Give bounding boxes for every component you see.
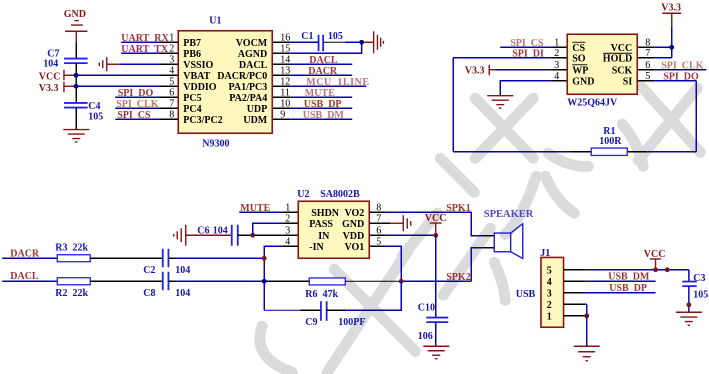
svg-text:SI: SI [623, 76, 633, 87]
svg-text:UDP: UDP [247, 104, 268, 115]
svg-text:12: 12 [280, 76, 290, 87]
flash U? left pin stubs [551, 47, 567, 81]
svg-text:SPEAKER: SPEAKER [484, 209, 534, 220]
junction V3.3 node [74, 84, 79, 89]
op-amp U1 body [178, 15, 272, 149]
svg-text:PA2/PA4: PA2/PA4 [229, 93, 267, 104]
power V3.3 [39, 82, 75, 94]
svg-text:6: 6 [376, 225, 381, 236]
svg-text:C8: C8 [143, 288, 155, 299]
resistor R1 [569, 126, 647, 156]
svg-text:SHDN: SHDN [311, 208, 340, 219]
wire [290, 74, 352, 76]
pin numbers 8-5 [376, 202, 381, 247]
svg-text:SPK2: SPK2 [446, 272, 470, 283]
svg-text:106: 106 [418, 331, 433, 342]
svg-text:VSSIO: VSSIO [183, 60, 213, 71]
svg-text:15: 15 [280, 43, 290, 54]
wire GND pin4 [500, 81, 551, 96]
flash right pin stubs [637, 47, 654, 81]
junction [433, 233, 438, 238]
wire pin8 [654, 46, 672, 48]
wire [290, 63, 352, 65]
wire pin16 to C1 [290, 41, 318, 43]
svg-text:R2 22k: R2 22k [55, 288, 88, 299]
svg-text:DACL: DACL [239, 60, 268, 71]
power V3.3 (flash WP) [465, 65, 496, 77]
junction [262, 256, 267, 261]
capacitor C10 [418, 302, 449, 342]
svg-text:4: 4 [285, 236, 290, 247]
wire [75, 108, 77, 130]
wire [500, 46, 551, 48]
wire [115, 96, 162, 98]
svg-text:PASS: PASS [309, 219, 333, 230]
wire [239, 211, 282, 213]
svg-text:105: 105 [88, 111, 103, 122]
svg-text:DACL: DACL [10, 271, 39, 282]
U2 right pin stubs [369, 212, 390, 246]
wire [654, 69, 706, 71]
svg-text:7: 7 [645, 48, 650, 59]
flash W25Q64JV body [567, 34, 637, 108]
resistor R6 [305, 278, 345, 300]
svg-text:C4: C4 [88, 101, 100, 112]
svg-text:-IN: -IN [309, 242, 324, 253]
svg-text:VBAT: VBAT [183, 71, 210, 82]
svg-text:104: 104 [175, 288, 190, 299]
svg-text:R3 22k: R3 22k [55, 242, 88, 253]
svg-text:5: 5 [645, 71, 650, 82]
svg-text:GND: GND [64, 9, 86, 20]
wire VCC to pin4 [76, 74, 162, 76]
svg-text:10: 10 [280, 98, 290, 109]
wire [120, 63, 162, 65]
wire pin5 VBUS [585, 269, 689, 271]
svg-text:100R: 100R [599, 136, 622, 147]
resistor R2 [55, 278, 90, 299]
wire to ground [586, 316, 588, 347]
svg-text:VO2: VO2 [344, 208, 364, 219]
wire [115, 107, 162, 109]
svg-text:GND: GND [572, 76, 594, 87]
wire pin8 to speaker [385, 212, 482, 236]
junction [665, 267, 670, 272]
svg-text:SCK: SCK [612, 65, 633, 76]
U1 left pin stubs pins 1-8 [160, 42, 178, 119]
wire [2, 280, 57, 282]
junction [669, 45, 674, 50]
junction [250, 233, 255, 238]
svg-text:2: 2 [547, 300, 552, 311]
svg-text:6: 6 [169, 87, 174, 98]
svg-text:PA1/PC3: PA1/PC3 [229, 82, 268, 93]
capacitor C8 [143, 272, 190, 299]
svg-text:9: 9 [280, 109, 285, 120]
junction [686, 302, 691, 307]
U2 left pin stubs [282, 212, 298, 246]
wire V3.3 down to pins 8,7 [671, 26, 673, 58]
svg-text:VCC: VCC [644, 249, 666, 260]
wire SO loop left [452, 58, 454, 152]
power VCC (USB) [644, 249, 666, 270]
ground (J1) [574, 346, 600, 361]
wire C9 loop left [264, 309, 300, 311]
svg-text:104: 104 [213, 225, 228, 236]
WATERMARK [260, 85, 700, 372]
svg-text:USB: USB [516, 289, 536, 300]
wire [121, 41, 162, 43]
wire VBUS down to C3 [688, 270, 690, 282]
wire SPK2 up to speaker [471, 248, 482, 282]
ground (sideways, U2 pin7) [390, 215, 411, 231]
svg-text:CS: CS [572, 43, 585, 54]
wire [168, 257, 176, 259]
wire [90, 257, 163, 259]
svg-text:4: 4 [554, 71, 559, 82]
svg-text:SO: SO [572, 53, 586, 64]
svg-text:7: 7 [376, 213, 381, 224]
svg-text:SA8002B: SA8002B [320, 189, 360, 200]
wire [75, 63, 77, 103]
ground (below C4) [63, 130, 89, 143]
svg-text:V3.3: V3.3 [39, 83, 59, 94]
wire pin7 [654, 57, 672, 59]
wire [168, 280, 176, 282]
capacitor C9 [305, 301, 365, 328]
wire [2, 257, 57, 259]
svg-text:U1: U1 [209, 15, 221, 26]
wire [290, 96, 352, 98]
wire loop bottom left [453, 151, 569, 153]
svg-text:5: 5 [169, 76, 174, 87]
svg-text:2: 2 [554, 48, 559, 59]
wire [290, 107, 352, 109]
svg-text:105: 105 [693, 289, 708, 300]
svg-text:4: 4 [547, 277, 552, 288]
svg-text:IN: IN [318, 231, 330, 242]
svg-text:3: 3 [285, 225, 290, 236]
U1 right pin stubs pins 16-9 [272, 42, 290, 119]
svg-text:8: 8 [169, 109, 174, 120]
svg-text:PC3/PC2: PC3/PC2 [183, 115, 222, 126]
svg-text:VO1: VO1 [344, 242, 364, 253]
svg-text:PB6: PB6 [183, 49, 201, 60]
wire [495, 69, 551, 71]
wire [75, 42, 77, 58]
svg-text:PC5: PC5 [183, 93, 201, 104]
svg-text:8: 8 [376, 202, 381, 213]
svg-text:14: 14 [280, 54, 290, 65]
svg-text:3: 3 [547, 288, 552, 299]
svg-text:104: 104 [175, 265, 190, 276]
capacitor C4 [64, 101, 103, 123]
svg-text:V3.3: V3.3 [661, 2, 681, 13]
svg-text:C1: C1 [301, 31, 313, 42]
power V3.3 (flash VCC) [661, 2, 681, 26]
svg-text:5: 5 [547, 265, 552, 276]
svg-text:GND: GND [342, 219, 364, 230]
pin numbers 3-8 [169, 54, 174, 120]
wire [585, 292, 655, 294]
wire C9 loop right [327, 309, 347, 311]
wire pin4 [264, 246, 282, 310]
svg-text:AGND: AGND [238, 49, 267, 60]
ground (sideways, left of C6) [174, 225, 232, 246]
wire loop right [695, 81, 697, 152]
junction VCC node [74, 73, 79, 78]
svg-text:VDDIO: VDDIO [183, 82, 217, 93]
wire VCC down to C10 [435, 235, 437, 317]
svg-text:VOCM: VOCM [236, 38, 268, 49]
wire [453, 57, 551, 59]
svg-text:C10: C10 [418, 302, 435, 313]
wire [290, 118, 352, 120]
svg-text:W25Q64JV: W25Q64JV [567, 97, 618, 108]
svg-text:4: 4 [169, 65, 174, 76]
svg-text:N9300: N9300 [202, 138, 229, 149]
svg-text:1: 1 [285, 202, 290, 213]
power VCC (amp) [425, 213, 447, 236]
svg-text:11: 11 [280, 87, 290, 98]
capacitor C6 [197, 225, 238, 246]
ground (sideways, U1 pin3) [99, 57, 120, 71]
wire C6 to pin3 [238, 234, 283, 236]
svg-text:3: 3 [554, 60, 559, 71]
ground (sideways, right of C1) [364, 31, 384, 53]
ground (flash GND) [487, 96, 513, 109]
svg-text:104: 104 [43, 58, 58, 69]
wire [435, 322, 437, 346]
svg-text:3: 3 [169, 54, 174, 65]
ground (below C3) [676, 312, 702, 325]
wire [290, 85, 366, 87]
svg-text:R6 47k: R6 47k [305, 289, 338, 300]
svg-text:HOLD: HOLD [603, 53, 632, 64]
junction [262, 279, 267, 284]
wire [688, 286, 690, 312]
svg-text:13: 13 [280, 65, 290, 76]
wire pin2 to pin1 [586, 304, 588, 316]
junction [584, 313, 589, 318]
svg-text:V3.3: V3.3 [465, 65, 485, 76]
wire [121, 52, 162, 54]
wire loop bottom right [647, 151, 696, 153]
svg-text:8: 8 [645, 37, 650, 48]
resistor R3 [55, 242, 90, 262]
pin numbers 8-5 [645, 37, 650, 82]
svg-text:VCC: VCC [39, 71, 61, 82]
junction [399, 279, 404, 284]
svg-text:1: 1 [547, 311, 552, 322]
svg-text:VCC: VCC [611, 43, 633, 54]
svg-text:UDM: UDM [243, 115, 267, 126]
pin numbers 1-4 [554, 37, 559, 82]
speaker LS [482, 209, 534, 259]
svg-text:105: 105 [328, 31, 343, 42]
wire C1 to ground [323, 41, 345, 43]
svg-text:PB7: PB7 [183, 38, 201, 49]
svg-text:7: 7 [169, 98, 174, 109]
junction [359, 40, 364, 45]
wire [585, 280, 655, 282]
wire pin2 jumper [253, 223, 283, 235]
connector J1 body [540, 248, 563, 328]
svg-text:16: 16 [280, 32, 290, 43]
wire R6 to SPK2 node [345, 280, 401, 282]
wire pin5 VO1 [385, 246, 401, 281]
svg-text:DACR/PC0: DACR/PC0 [217, 71, 267, 82]
wire pin6 VDD [385, 234, 436, 236]
power GND (top-left) [64, 9, 88, 43]
wire pin15 loop [290, 42, 361, 53]
pin numbers 1-2 [169, 32, 174, 54]
svg-text:1: 1 [554, 37, 559, 48]
svg-text:C9: C9 [305, 317, 317, 328]
svg-text:U2: U2 [297, 189, 309, 200]
capacitor C3 [682, 273, 708, 301]
power VCC [39, 70, 75, 83]
svg-text:C6: C6 [197, 225, 209, 236]
svg-text:5: 5 [376, 236, 381, 247]
pin numbers 16-9 [280, 32, 290, 120]
wire [115, 118, 162, 120]
svg-text:PC4: PC4 [183, 104, 201, 115]
J1 pin stubs [564, 270, 587, 316]
wire [90, 280, 163, 282]
junction [653, 267, 658, 272]
svg-text:2: 2 [285, 213, 290, 224]
wire V3.3 to pin5 [76, 85, 162, 87]
svg-text:VDD: VDD [343, 231, 365, 242]
svg-text:WP: WP [572, 65, 588, 76]
wire [654, 80, 696, 82]
svg-text:6: 6 [645, 60, 650, 71]
ground (below C10) [423, 346, 449, 359]
capacitor C1 [301, 31, 343, 52]
capacitor C2 [143, 249, 190, 276]
amplifier U2 body [297, 189, 369, 259]
svg-text:100PF: 100PF [338, 317, 365, 328]
pin numbers 1-4 [285, 202, 290, 247]
capacitor C7 [43, 48, 87, 69]
svg-text:VCC: VCC [425, 213, 447, 224]
svg-text:C2: C2 [143, 265, 155, 276]
